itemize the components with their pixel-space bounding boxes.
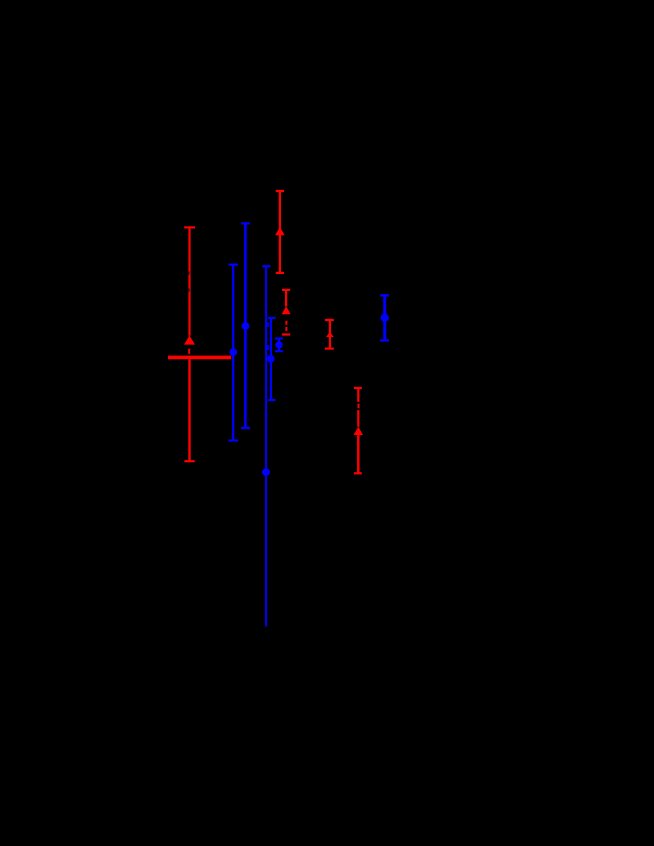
red errorbar R1 (x=189.4) [184,227,195,461]
blue errorbar B6 (x=384.7, thick) [380,295,389,340]
red errorbar R4 (x=329.9, small) [325,320,334,349]
red errorbar R3 (x=286.1, dashed lower part) [282,290,291,335]
red errorbar R2 (x=279.9) [275,191,285,273]
blue errorbar B2 (x=245.4) [241,223,250,428]
blue errorbar B4 (x=270.9) [267,318,276,400]
red horizontal x-errorbar (y=357.4) [168,356,231,360]
blue errorbar B1 (x=233.2) [229,265,239,441]
red errorbar R5 (x=358.3, dash-dot upper part) [354,388,363,473]
blue errorbar B5 (x=279.0, small) [275,339,283,352]
blue errorbar B3 (x=266.1, long lower tail, no bottom cap) [262,266,270,626]
